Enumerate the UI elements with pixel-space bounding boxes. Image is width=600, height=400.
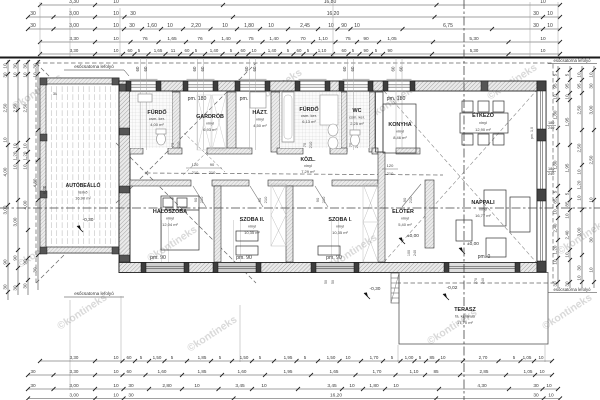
- svg-text:2,70: 2,70: [479, 355, 488, 360]
- svg-text:75: 75: [248, 36, 254, 42]
- bottom window axis lines: [161, 220, 163, 262]
- window centerlines to eave: [140, 58, 142, 150]
- svg-text:30: 30: [12, 285, 17, 291]
- section line vertical: [463, 0, 465, 400]
- svg-text:10: 10: [113, 0, 119, 5]
- partition ELOTER/NAPPALI: [425, 180, 434, 248]
- svg-text:3,45: 3,45: [235, 383, 245, 389]
- svg-text:4,80: 4,80: [32, 178, 37, 187]
- svg-text:85: 85: [552, 198, 557, 204]
- svg-text:±0,00: ±0,00: [407, 233, 419, 239]
- left dimension chain 1: [7, 60, 9, 300]
- furniture dining table: [460, 113, 508, 133]
- elevation marker terrace: [443, 293, 447, 298]
- svg-text:30: 30: [30, 23, 36, 29]
- carport posts: [40, 78, 47, 85]
- svg-text:1,10: 1,10: [318, 48, 327, 53]
- svg-text:10: 10: [541, 48, 546, 53]
- svg-text:60: 60: [391, 66, 396, 71]
- svg-text:1,80: 1,80: [244, 23, 254, 29]
- svg-text:30: 30: [2, 284, 7, 290]
- svg-text:4,50 m²: 4,50 m²: [253, 123, 267, 128]
- svg-text:12,90 m²: 12,90 m²: [475, 127, 491, 132]
- svg-text:2,25 m²: 2,25 m²: [350, 121, 364, 126]
- house right exterior wall: [537, 81, 546, 273]
- svg-text:KONYHA: KONYHA: [388, 122, 411, 128]
- window W2 top wall: [188, 81, 213, 91]
- svg-text:vinyl: vinyl: [256, 117, 264, 122]
- svg-text:10: 10: [564, 94, 569, 100]
- top dimension row 2: [28, 16, 560, 18]
- svg-text:1,05: 1,05: [387, 36, 397, 42]
- svg-text:10: 10: [588, 267, 593, 273]
- svg-text:7,29 m²: 7,29 m²: [301, 169, 315, 174]
- svg-text:60: 60: [241, 48, 246, 53]
- svg-text:4,00: 4,00: [22, 200, 27, 209]
- svg-text:10: 10: [22, 143, 27, 149]
- terrace entry stairs: [391, 273, 399, 303]
- furniture sofa 1: [484, 190, 506, 226]
- living area diagonal X 2: [384, 91, 536, 262]
- svg-text:vinyl: vinyl: [166, 216, 174, 221]
- svg-text:5: 5: [552, 73, 557, 76]
- svg-text:1,95: 1,95: [284, 369, 293, 374]
- svg-text:30: 30: [30, 383, 36, 389]
- svg-text:3,00: 3,00: [576, 227, 581, 236]
- svg-text:10: 10: [588, 72, 593, 78]
- svg-text:60: 60: [192, 66, 197, 71]
- svg-text:90: 90: [364, 48, 369, 53]
- elevation marker carport: [77, 225, 81, 230]
- svg-text:5: 5: [552, 190, 557, 193]
- svg-text:10: 10: [167, 23, 173, 29]
- furniture sofa 2: [510, 197, 530, 232]
- roof ridge: [146, 173, 443, 175]
- svg-text:pm. 90: pm. 90: [236, 255, 252, 261]
- svg-text:10: 10: [547, 23, 553, 29]
- svg-text:5,30: 5,30: [470, 48, 479, 53]
- svg-text:10: 10: [576, 275, 581, 281]
- svg-text:1,50: 1,50: [240, 355, 249, 360]
- furniture rug: [486, 238, 506, 257]
- window R3 right wall: [537, 201, 546, 261]
- svg-text:75: 75: [345, 36, 351, 42]
- svg-text:210: 210: [308, 141, 313, 148]
- svg-text:60: 60: [128, 48, 133, 53]
- extension line right: [529, 2, 531, 57]
- svg-text:10: 10: [588, 197, 593, 203]
- partition SZOBA2/SZOBA1: [286, 186, 293, 262]
- top wall pier block right: [481, 81, 488, 91]
- svg-text:1,60: 1,60: [147, 23, 157, 29]
- svg-text:2,40: 2,40: [552, 223, 557, 232]
- svg-text:210: 210: [176, 141, 181, 148]
- tiled floor FURDO2: [280, 92, 341, 148]
- svg-text:75: 75: [170, 142, 175, 147]
- svg-text:60: 60: [342, 48, 347, 53]
- house left exterior wall: [119, 81, 130, 273]
- corridor north wall segments: [130, 148, 143, 154]
- svg-text:210: 210: [192, 170, 199, 175]
- svg-text:11: 11: [171, 48, 176, 53]
- svg-text:1,80: 1,80: [369, 383, 379, 389]
- svg-text:5: 5: [564, 192, 569, 195]
- svg-text:10: 10: [222, 23, 228, 29]
- fixture washer hazt: [250, 92, 266, 108]
- svg-text:3,30: 3,30: [69, 0, 79, 5]
- svg-text:10,35 m²: 10,35 m²: [332, 230, 348, 235]
- svg-text:4,00: 4,00: [2, 167, 7, 176]
- svg-text:10: 10: [552, 209, 557, 215]
- svg-text:5: 5: [564, 73, 569, 76]
- right dimension chain 3: [581, 66, 583, 288]
- svg-text:1,85: 1,85: [198, 355, 207, 360]
- door leaf szoba1: [315, 186, 328, 207]
- svg-text:1,60: 1,60: [158, 369, 167, 374]
- house top exterior wall: [119, 81, 546, 91]
- carport left band: [40, 78, 46, 253]
- svg-text:csm. ker.: csm. ker.: [149, 116, 165, 121]
- svg-text:1,50: 1,50: [153, 355, 162, 360]
- svg-text:10,35 m²: 10,35 m²: [244, 230, 260, 235]
- living area diagonal X 1: [384, 91, 536, 262]
- svg-text:50: 50: [331, 280, 335, 284]
- svg-text:2,85: 2,85: [480, 369, 489, 374]
- svg-text:10: 10: [32, 72, 37, 78]
- svg-text:10: 10: [113, 23, 119, 29]
- svg-text:30: 30: [533, 383, 539, 389]
- svg-text:1,40: 1,40: [210, 48, 219, 53]
- partition WC/KONYHA: [369, 92, 375, 152]
- svg-text:10: 10: [576, 195, 581, 201]
- svg-text:3,00: 3,00: [12, 217, 17, 226]
- svg-text:6,30: 6,30: [42, 185, 47, 194]
- svg-text:3,00: 3,00: [69, 383, 79, 389]
- svg-text:12,04 m²: 12,04 m²: [162, 222, 178, 227]
- svg-text:10: 10: [576, 72, 581, 78]
- svg-text:10: 10: [22, 72, 27, 78]
- section line horizontal: [0, 207, 600, 209]
- svg-text:10: 10: [393, 383, 399, 389]
- svg-text:1,40: 1,40: [269, 36, 279, 42]
- elevation marker ELOTER: [399, 237, 403, 242]
- extension line x70: [69, 8, 71, 57]
- svg-text:10: 10: [564, 213, 569, 219]
- svg-text:210: 210: [209, 170, 216, 175]
- svg-text:4,30: 4,30: [477, 383, 487, 389]
- window W4 top wall: [300, 81, 325, 91]
- svg-text:60: 60: [126, 369, 132, 374]
- partition FURDO/GARDROB: [172, 92, 180, 152]
- top dimension row 3: [28, 28, 560, 30]
- svg-text:vinyl: vinyl: [479, 207, 487, 212]
- svg-text:30: 30: [30, 369, 36, 374]
- bottom dimension row 1: [40, 360, 552, 362]
- svg-text:90: 90: [363, 36, 369, 42]
- svg-text:85: 85: [564, 201, 569, 207]
- top dimension row 1: [40, 4, 560, 6]
- svg-text:85: 85: [429, 355, 435, 360]
- svg-text:-0,30: -0,30: [370, 286, 381, 292]
- svg-text:30: 30: [22, 283, 27, 289]
- svg-text:2,40: 2,40: [564, 230, 569, 239]
- svg-text:30: 30: [588, 237, 593, 243]
- svg-text:30: 30: [12, 63, 17, 69]
- svg-text:30: 30: [32, 63, 37, 69]
- corridor south wall segments: [130, 180, 191, 186]
- svg-text:10: 10: [113, 36, 119, 42]
- svg-text:2,50: 2,50: [2, 103, 7, 112]
- svg-text:1,10: 1,10: [318, 36, 328, 42]
- bottom extension line x545: [544, 345, 546, 362]
- svg-text:vinyl: vinyl: [336, 224, 344, 229]
- furniture desk szoba2: [236, 231, 258, 241]
- right dimension chain 1: [557, 66, 559, 288]
- svg-text:90: 90: [388, 48, 393, 53]
- svg-text:50: 50: [324, 280, 328, 284]
- tiled floor FURDO1: [130, 92, 172, 148]
- svg-text:90: 90: [257, 197, 262, 202]
- svg-text:10: 10: [261, 383, 267, 389]
- svg-text:vinyl: vinyl: [248, 224, 256, 229]
- svg-text:10: 10: [547, 11, 553, 17]
- svg-text:NAPPALI: NAPPALI: [471, 200, 495, 206]
- svg-text:2,50: 2,50: [576, 105, 581, 114]
- svg-text:2,50: 2,50: [22, 103, 27, 112]
- svg-text:2,80: 2,80: [162, 383, 172, 389]
- svg-text:1,80: 1,80: [552, 160, 557, 169]
- roof diagonal left X 1: [36, 63, 256, 283]
- svg-text:90: 90: [22, 259, 27, 265]
- bottom dimension row 2: [28, 374, 552, 376]
- svg-text:30: 30: [552, 281, 557, 287]
- svg-text:1,65: 1,65: [330, 369, 339, 374]
- svg-text:10: 10: [12, 164, 17, 170]
- svg-text:95: 95: [576, 83, 581, 89]
- svg-text:10: 10: [113, 369, 119, 374]
- window W3 top wall: [240, 81, 265, 91]
- left dimension chain 4: [37, 60, 39, 290]
- svg-text:10: 10: [576, 169, 581, 175]
- svg-text:1,65: 1,65: [167, 36, 177, 42]
- svg-text:240: 240: [548, 126, 554, 130]
- terrace door bottom wall: [449, 263, 515, 273]
- svg-text:-0,30: -0,30: [83, 217, 94, 223]
- fixture bathtub furdo2: [282, 92, 294, 142]
- svg-text:3,00: 3,00: [588, 105, 593, 114]
- bottom extension line x398: [397, 345, 399, 362]
- svg-text:8,46 m²: 8,46 m²: [393, 135, 407, 140]
- svg-text:10: 10: [194, 383, 200, 389]
- fixture toilet furdo1: [157, 133, 166, 145]
- svg-text:60: 60: [297, 48, 302, 53]
- svg-text:30: 30: [533, 11, 539, 17]
- svg-text:240: 240: [413, 250, 417, 256]
- svg-text:10: 10: [114, 48, 119, 53]
- svg-text:10: 10: [440, 355, 446, 360]
- carport outline: [40, 78, 119, 253]
- svg-text:ÉTKEZŐ: ÉTKEZŐ: [472, 111, 494, 119]
- svg-text:TERASZ: TERASZ: [454, 307, 476, 313]
- extension line x120: [119, 8, 121, 57]
- svg-text:120: 120: [387, 163, 394, 168]
- carport stripes fill: [44, 84, 116, 248]
- svg-text:95: 95: [564, 83, 569, 89]
- svg-text:1,20: 1,20: [552, 245, 557, 254]
- left dimension chain 2: [17, 60, 19, 295]
- furniture wardrobe szoba2 with X: [271, 184, 286, 246]
- house bottom exterior wall: [119, 263, 546, 273]
- svg-text:240: 240: [481, 278, 485, 284]
- svg-text:1,70: 1,70: [373, 369, 382, 374]
- svg-text:60: 60: [398, 66, 403, 71]
- svg-text:60: 60: [143, 66, 148, 71]
- svg-text:10: 10: [2, 63, 7, 69]
- svg-text:esőcsatorna lefolyó: esőcsatorna lefolyó: [74, 291, 114, 296]
- terrace outline: [399, 273, 548, 345]
- svg-text:FÜRDŐ: FÜRDŐ: [299, 106, 318, 113]
- svg-text:90: 90: [315, 197, 320, 202]
- svg-text:30: 30: [2, 72, 7, 78]
- partition HALOSZOBA/SZOBA2: [214, 186, 221, 262]
- svg-text:1,20: 1,20: [12, 151, 17, 160]
- furniture tv board: [456, 220, 472, 241]
- right dimension chain 4: [593, 66, 595, 288]
- svg-text:10: 10: [113, 393, 119, 399]
- svg-text:10: 10: [540, 36, 546, 42]
- carport beam bottom: [40, 247, 119, 253]
- svg-text:30: 30: [533, 23, 539, 29]
- svg-text:60: 60: [185, 48, 190, 53]
- svg-text:1,05: 1,05: [524, 369, 533, 374]
- furniture dining chairs: [462, 101, 473, 112]
- svg-text:1,60: 1,60: [238, 369, 247, 374]
- window W1 top wall: [131, 81, 156, 91]
- svg-text:210: 210: [263, 196, 268, 203]
- svg-text:30: 30: [32, 267, 37, 273]
- svg-text:10: 10: [12, 143, 17, 149]
- svg-text:90: 90: [341, 23, 347, 29]
- svg-text:3,30: 3,30: [70, 355, 79, 360]
- fixture toilet wc: [351, 134, 360, 146]
- svg-text:KÖZL.: KÖZL.: [301, 156, 317, 163]
- svg-text:vinyl: vinyl: [479, 120, 487, 125]
- svg-text:1,65: 1,65: [154, 48, 163, 53]
- furniture wardrobe gardrob: [197, 95, 226, 150]
- svg-text:60: 60: [342, 66, 347, 71]
- svg-text:30: 30: [128, 393, 134, 399]
- svg-text:6,93 m²: 6,93 m²: [203, 127, 217, 132]
- svg-text:30: 30: [22, 63, 27, 69]
- svg-text:vinyl: vinyl: [401, 216, 409, 221]
- svg-text:10: 10: [268, 23, 274, 29]
- svg-text:60: 60: [244, 66, 249, 71]
- partition HAZT/FURDO2: [271, 92, 280, 152]
- svg-text:pm. 90: pm. 90: [326, 255, 342, 261]
- svg-text:180: 180: [548, 121, 554, 125]
- svg-text:1,50: 1,50: [327, 355, 336, 360]
- roof diagonal left X 2: [36, 63, 256, 283]
- svg-text:10: 10: [552, 94, 557, 100]
- svg-text:30: 30: [533, 393, 539, 399]
- fixture double sink furdo2: [328, 124, 338, 136]
- svg-text:210: 210: [199, 196, 204, 203]
- top dimension row 5: [40, 53, 560, 55]
- svg-text:csm. ker.: csm. ker.: [349, 115, 365, 120]
- svg-text:10: 10: [552, 259, 557, 265]
- svg-text:6,13 m²: 6,13 m²: [302, 119, 316, 124]
- svg-text:120: 120: [192, 162, 199, 167]
- svg-text:3,00: 3,00: [69, 23, 79, 29]
- svg-text:30: 30: [130, 11, 136, 17]
- svg-text:1,05: 1,05: [523, 355, 532, 360]
- left wall column blocks: [120, 84, 130, 91]
- svg-text:60: 60: [135, 66, 140, 71]
- svg-text:30: 30: [576, 265, 581, 271]
- svg-text:vinyl: vinyl: [304, 163, 312, 168]
- window B1 bottom wall: [146, 263, 184, 273]
- svg-text:pm. 90: pm. 90: [150, 255, 166, 261]
- svg-text:3,00: 3,00: [69, 11, 79, 17]
- svg-text:3,30: 3,30: [69, 36, 79, 42]
- svg-text:1,95: 1,95: [564, 117, 569, 126]
- svg-text:1,70: 1,70: [370, 355, 379, 360]
- watermark texts: [10, 61, 600, 354]
- elevation marker outside: [364, 292, 368, 297]
- svg-text:210: 210: [408, 196, 413, 203]
- svg-text:270: 270: [474, 278, 478, 284]
- svg-text:1,95: 1,95: [284, 355, 293, 360]
- partition FURDO2/WC: [341, 92, 347, 152]
- svg-text:2,50: 2,50: [576, 143, 581, 152]
- svg-text:2,50: 2,50: [588, 155, 593, 164]
- window R1 right wall: [537, 91, 546, 129]
- window B3 bottom wall: [316, 263, 354, 273]
- svg-text:10: 10: [345, 355, 351, 360]
- svg-text:90: 90: [210, 162, 215, 167]
- svg-text:10: 10: [12, 72, 17, 78]
- svg-text:3,00: 3,00: [2, 205, 7, 214]
- svg-text:esőcsatorna lefolyó: esőcsatorna lefolyó: [74, 64, 114, 69]
- svg-text:10: 10: [2, 137, 7, 143]
- svg-text:100: 100: [407, 250, 411, 256]
- svg-text:2,20: 2,20: [191, 23, 201, 29]
- svg-text:10: 10: [540, 0, 546, 5]
- svg-text:1,20: 1,20: [576, 180, 581, 189]
- door leaf haloszoba: [193, 186, 206, 207]
- bottom dimension row 4: [28, 398, 560, 400]
- svg-text:10: 10: [113, 355, 119, 360]
- svg-text:1,40: 1,40: [221, 36, 231, 42]
- svg-text:60: 60: [200, 66, 205, 71]
- bottom dimension row 3: [28, 388, 558, 390]
- svg-text:85: 85: [433, 369, 439, 374]
- svg-text:térkő: térkő: [79, 190, 89, 195]
- window B2 bottom wall: [218, 263, 256, 273]
- bottom extension line x70: [69, 300, 71, 390]
- svg-text:WC: WC: [353, 108, 362, 114]
- svg-text:esőcsatorna lefolyó: esőcsatorna lefolyó: [553, 58, 591, 63]
- svg-text:10: 10: [354, 23, 360, 29]
- top dimension row 4: [40, 41, 560, 43]
- svg-text:16,77 m²: 16,77 m²: [475, 213, 491, 218]
- svg-text:16,80: 16,80: [324, 0, 337, 5]
- svg-text:76: 76: [197, 36, 203, 42]
- roof overhang outline dashed: [36, 63, 553, 283]
- svg-text:10: 10: [546, 383, 552, 389]
- svg-text:90: 90: [12, 255, 17, 261]
- svg-text:240: 240: [548, 172, 554, 176]
